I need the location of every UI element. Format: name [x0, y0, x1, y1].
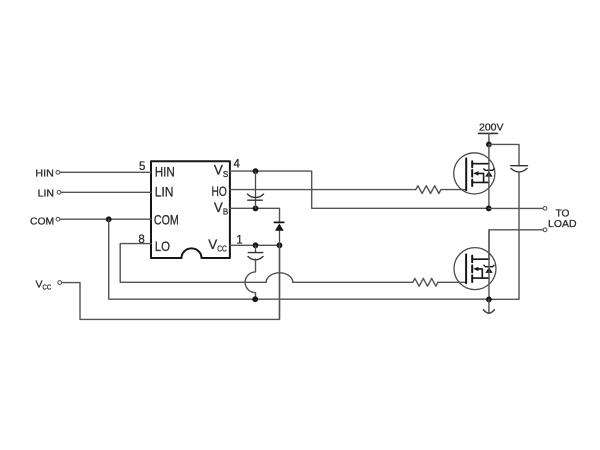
svg-text:200V: 200V — [479, 122, 504, 134]
node VB cap junction dot — [253, 206, 259, 212]
svg-text:1: 1 — [236, 234, 242, 246]
node switch node dot — [486, 206, 492, 212]
wire rail to bus capacitor — [489, 144, 519, 165]
node diode anode junction dot — [277, 242, 283, 248]
capacitor C3 curved plate — [511, 169, 527, 172]
node C2 to COM rail junction dot — [252, 296, 258, 302]
svg-text:HIN: HIN — [155, 164, 175, 180]
wire LO pin routing — [120, 244, 266, 283]
transistor Q2 body diode triangle — [485, 267, 492, 273]
svg-text:LIN: LIN — [38, 187, 54, 199]
transistor Q1 channel dashes — [471, 161, 473, 186]
transistor Q1 body arrow — [473, 171, 478, 175]
wire COM terminal to IC — [60, 218, 151, 220]
node COM junction dot — [106, 216, 112, 222]
wire VB pin to bootstrap diode — [230, 208, 280, 222]
transistor Q2 gate bar — [465, 254, 467, 283]
svg-text:5: 5 — [139, 161, 145, 173]
terminal LIN open circle — [57, 190, 61, 194]
transistor Q1 gate bar — [465, 158, 467, 190]
capacitor C2 lower wire with hop over LO line — [245, 259, 255, 299]
svg-text:HIN: HIN — [35, 167, 53, 179]
svg-text:COM: COM — [30, 215, 54, 227]
terminal COM open circle — [56, 217, 60, 221]
wire R2 to Q2 gate — [438, 281, 466, 283]
capacitor C2 vcc decoupling wire upper — [255, 245, 257, 252]
svg-text:LO: LO — [155, 238, 170, 254]
transistor Q1 source connect — [472, 181, 489, 183]
svg-text:HO: HO — [212, 183, 227, 199]
capacitor C2 curved plate — [248, 257, 263, 260]
capacitor C1 curved plate — [248, 194, 264, 197]
terminal TO open circle — [543, 206, 547, 210]
transistor Q2 circle — [454, 248, 496, 290]
transistor Q1 circle — [454, 153, 495, 194]
wire LIN terminal to IC — [61, 191, 151, 193]
node VS cap junction dot — [253, 168, 259, 174]
wire VCC terminal to bottom rail — [62, 245, 280, 319]
transistor Q2 source connect — [472, 277, 489, 279]
resistor R1 upper gate — [416, 186, 441, 194]
diode D1 bootstrap wire and body — [279, 231, 281, 246]
terminal LOAD open circle — [543, 228, 547, 232]
ground symbol — [488, 299, 490, 312]
svg-text:LOAD: LOAD — [548, 219, 577, 230]
transistor Q1 body diode bar — [484, 169, 494, 171]
terminal HIN open circle — [56, 170, 60, 174]
svg-text:COM: COM — [154, 212, 179, 228]
wire Q2 drain-source vertical — [488, 230, 490, 299]
transistor Q2 channel dashes — [471, 256, 473, 282]
ic U1 outline — [151, 161, 230, 258]
wire rail to drain node — [488, 133, 490, 144]
capacitor C2 straight plate — [248, 252, 262, 254]
wire diode-VCC vertical down through hop region — [279, 245, 281, 270]
capacitor C3 lower wire to ground rail — [489, 172, 519, 299]
transistor Q2 body diode bar — [484, 265, 494, 267]
wire LO line hop over vertical — [266, 273, 293, 283]
terminal VCC open circle — [58, 281, 62, 285]
transistor Q2 drain connect — [472, 258, 489, 260]
transistor Q1 body diode triangle — [485, 171, 492, 177]
wire HO pin to gate resistor — [230, 189, 416, 191]
capacitor C1 straight plate — [248, 199, 262, 201]
node Q2 source ground junction dot — [486, 297, 492, 303]
transistor Q1 drain connect — [472, 163, 489, 165]
svg-text:4: 4 — [234, 159, 241, 171]
node 200V junction dot — [486, 142, 492, 148]
capacitor C3 bus straight plate — [511, 165, 528, 167]
diode D1 cathode bar — [274, 221, 283, 223]
wire VCC pin to diode anode — [230, 244, 280, 246]
svg-text:LIN: LIN — [155, 184, 174, 200]
diode D1 triangle — [275, 224, 284, 231]
svg-text:8: 8 — [138, 234, 144, 246]
supply rail bar — [479, 132, 498, 134]
node VCC cap junction dot — [253, 242, 259, 248]
wire Q1 drain-source vertical — [488, 144, 490, 208]
wire LOAD terminal to Q2 drain — [489, 230, 543, 259]
wire switch node to TO terminal — [489, 207, 543, 209]
capacitor C1 bootstrap VS-VB wire — [255, 171, 257, 208]
wire HIN terminal to IC — [60, 171, 151, 173]
wire VS pin to switch node — [230, 171, 489, 208]
transistor Q2 body arrow — [473, 267, 478, 271]
wire R1 to Q1 gate — [441, 189, 466, 191]
wire COM branch down to ground rail — [109, 219, 489, 299]
resistor R2 lower gate — [413, 278, 438, 286]
